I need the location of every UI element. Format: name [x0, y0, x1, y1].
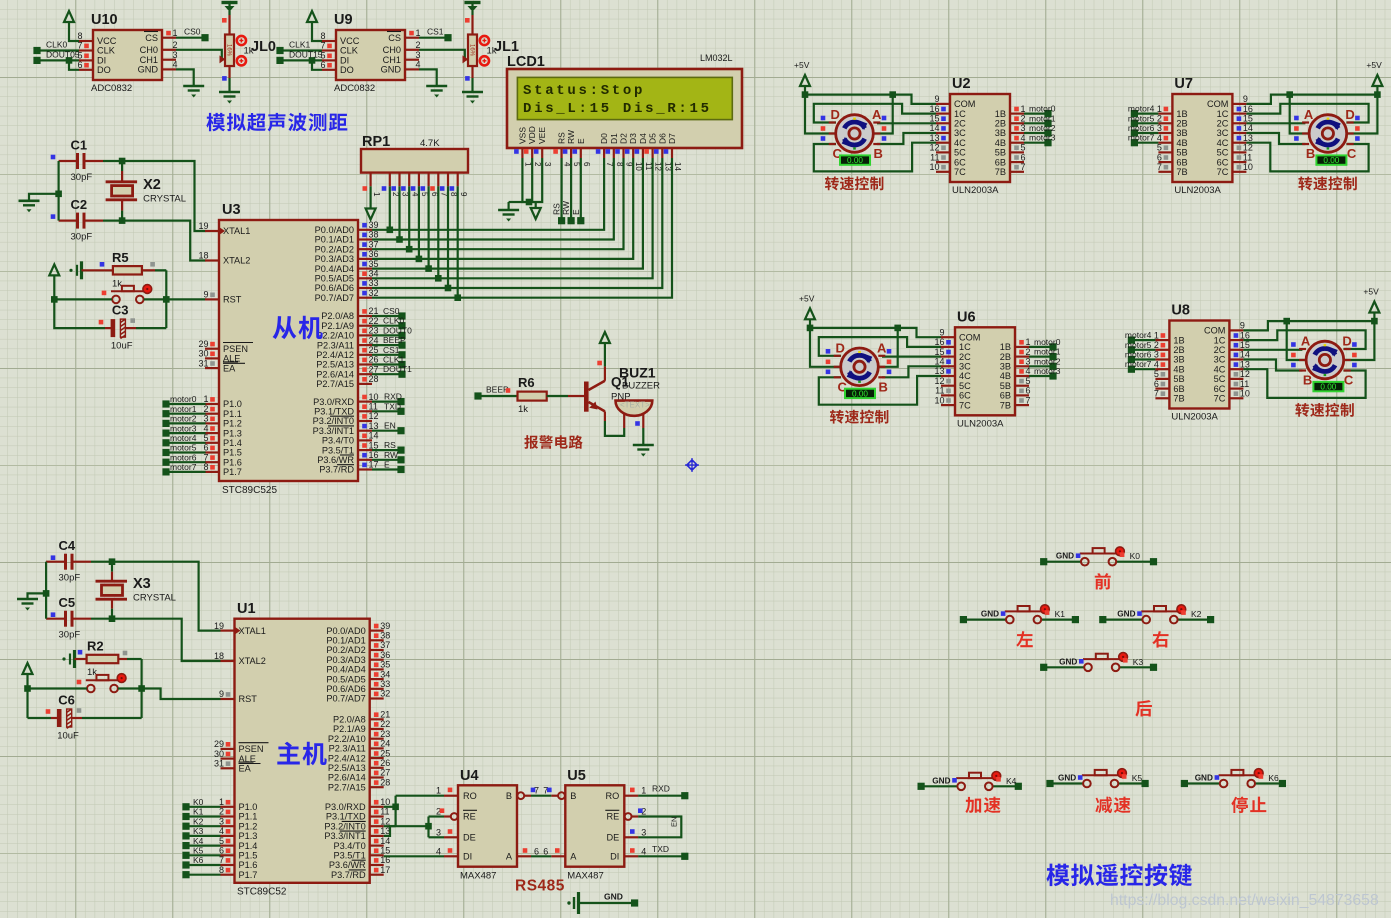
wire net K2 (U1)	[182, 823, 189, 830]
svg-text:10: 10	[1243, 162, 1253, 172]
wire motor A-2C (U8)	[1243, 349, 1302, 351]
svg-text:E: E	[576, 138, 586, 144]
capacitor C5	[64, 611, 67, 627]
stepper motor (U7)	[1309, 115, 1347, 153]
svg-text:RS: RS	[384, 440, 396, 450]
svg-text:6: 6	[582, 162, 591, 167]
label 左	[1016, 631, 1032, 647]
svg-text:C5: C5	[59, 595, 76, 610]
label 转速控制 (U8)	[1295, 403, 1353, 417]
svg-text:32: 32	[369, 288, 379, 298]
svg-text:2B: 2B	[1176, 119, 1187, 129]
svg-text:D1: D1	[609, 133, 619, 144]
MCU U1 STC89C52 (master)	[235, 619, 370, 883]
wire net CS0 (U3 P2)	[372, 315, 402, 317]
wire ground branch	[55, 191, 62, 198]
wire net CS0	[176, 37, 205, 39]
svg-text:28: 28	[380, 777, 390, 787]
svg-text:16: 16	[929, 104, 939, 114]
resistor R2	[87, 655, 119, 663]
svg-text:5B: 5B	[1176, 148, 1187, 158]
svg-text:4C: 4C	[1214, 364, 1226, 374]
svg-text:X2: X2	[143, 177, 161, 193]
svg-text:7C: 7C	[1214, 394, 1226, 404]
svg-text:5C: 5C	[1217, 148, 1229, 158]
svg-text:K4: K4	[193, 836, 204, 846]
wire net motor4 (U3)	[162, 439, 169, 446]
svg-text:9: 9	[1240, 321, 1245, 331]
bus wire P0.5/D5	[372, 158, 653, 278]
svg-text:30: 30	[214, 749, 224, 759]
svg-text:6: 6	[203, 443, 208, 453]
svg-text:7C: 7C	[954, 167, 966, 177]
wire ground branch (U1)	[43, 590, 50, 597]
speed display (U7)	[1316, 155, 1346, 164]
svg-text:D: D	[831, 107, 840, 122]
svg-text:6: 6	[1157, 152, 1162, 162]
svg-text:36: 36	[380, 650, 390, 660]
svg-text:K6: K6	[193, 855, 204, 865]
svg-text:26: 26	[380, 758, 390, 768]
svg-text:RE: RE	[607, 812, 620, 822]
svg-text:2: 2	[1026, 347, 1031, 357]
power-down arrow RP1 pin1	[370, 186, 372, 208]
ground osc	[19, 200, 40, 203]
svg-text:15: 15	[1243, 114, 1253, 124]
wire U5 RE-DE loop	[638, 817, 681, 838]
svg-text:1: 1	[641, 786, 646, 796]
svg-text:13: 13	[380, 826, 390, 836]
wire +5V rail (U6)	[807, 325, 814, 332]
svg-text:motor6: motor6	[1128, 123, 1155, 133]
svg-text:8: 8	[77, 31, 82, 41]
svg-text:C: C	[1347, 146, 1357, 161]
wire net E (U3 P3)	[372, 468, 401, 470]
svg-text:P3.5/T1: P3.5/T1	[322, 445, 354, 455]
wire motor B-3C (U8)	[1243, 360, 1302, 371]
svg-text:7: 7	[1154, 389, 1159, 399]
svg-text:6C: 6C	[959, 391, 971, 401]
wire RST	[166, 298, 205, 300]
power VCC arrow U10	[64, 11, 74, 22]
svg-text:CLK0: CLK0	[46, 40, 68, 50]
svg-text:B: B	[506, 791, 512, 801]
wire Q1 emitter to buzzer	[605, 421, 624, 436]
svg-text:3: 3	[416, 50, 421, 60]
wire motor B-3C (U2)	[877, 133, 936, 144]
wire right rail (U1)	[141, 659, 143, 718]
svg-text:18: 18	[214, 651, 224, 661]
svg-text:RW: RW	[566, 130, 576, 144]
svg-text:3: 3	[203, 414, 208, 424]
svg-text:24: 24	[380, 739, 390, 749]
wire +5V taps (U8)	[1343, 321, 1374, 360]
svg-text:XTAL1: XTAL1	[223, 226, 250, 236]
svg-text:1C: 1C	[1217, 109, 1229, 119]
svg-text:motor5: motor5	[1128, 113, 1155, 123]
wire net motor3 (U3)	[162, 430, 169, 437]
wire motor D-1C (U6)	[819, 337, 941, 356]
svg-text:P3.6/WR: P3.6/WR	[329, 860, 366, 870]
svg-text:2: 2	[173, 40, 178, 50]
svg-text:CS1: CS1	[383, 345, 400, 355]
svg-text:U2: U2	[952, 76, 971, 92]
push button K4	[918, 783, 925, 790]
wire motor A-2C (U6)	[882, 356, 941, 358]
svg-text:12: 12	[369, 411, 379, 421]
svg-text:9: 9	[934, 94, 939, 104]
svg-text:P2.6/A14: P2.6/A14	[328, 773, 366, 783]
wire XTAL1	[122, 161, 206, 231]
wire CH0 to JL1	[419, 50, 467, 60]
svg-text:3B: 3B	[995, 128, 1006, 138]
svg-text:ULN2003A: ULN2003A	[957, 418, 1004, 429]
origin marker	[685, 458, 699, 472]
svg-text:K3: K3	[193, 826, 204, 836]
svg-text:39: 39	[380, 621, 390, 631]
svg-text:6: 6	[534, 846, 539, 856]
bus wire P0.1/D1	[372, 158, 614, 240]
svg-text:10: 10	[380, 797, 390, 807]
svg-text:4.7K: 4.7K	[420, 138, 440, 149]
wire net K0 (U1)	[182, 803, 189, 810]
svg-text:CS0: CS0	[383, 306, 400, 316]
svg-text:DI: DI	[610, 852, 619, 862]
svg-text:A: A	[1304, 107, 1314, 122]
svg-text:2C: 2C	[959, 352, 971, 362]
ground LCD	[498, 209, 519, 212]
svg-text:K0: K0	[193, 797, 204, 807]
svg-text:motor4: motor4	[170, 433, 197, 443]
wire C-left rail	[57, 161, 59, 221]
svg-text:4: 4	[1157, 133, 1162, 143]
svg-text:K4: K4	[1006, 776, 1017, 786]
power arrow reset	[49, 264, 59, 275]
svg-text:8: 8	[320, 31, 325, 41]
svg-text:0.00: 0.00	[847, 156, 863, 165]
push button K5	[1046, 780, 1053, 787]
wire +5V rail (U2)	[802, 91, 809, 98]
wire net motor7 (U3)	[162, 468, 169, 475]
svg-text:12: 12	[929, 143, 939, 153]
label 从机	[273, 316, 323, 339]
wire motor B-3C (U7)	[1246, 133, 1305, 144]
svg-text:12: 12	[934, 376, 944, 386]
reset button (U1)	[87, 685, 95, 693]
svg-text:motor0: motor0	[1029, 104, 1056, 114]
svg-text:VCC: VCC	[97, 36, 117, 46]
svg-text:6: 6	[1021, 152, 1026, 162]
wire net motor0 (U6)	[1029, 346, 1053, 348]
svg-text:K5: K5	[1132, 773, 1143, 783]
svg-text:VCC: VCC	[340, 36, 360, 46]
wire XTAL2 (U1)	[112, 619, 221, 661]
svg-text:A: A	[570, 852, 577, 862]
wire net motor7 (U7)	[1134, 142, 1158, 144]
svg-text:P3.2/INT0: P3.2/INT0	[324, 821, 365, 831]
svg-text:EA: EA	[223, 363, 236, 373]
svg-text:CLK1: CLK1	[289, 40, 311, 50]
ground JL0	[219, 91, 240, 94]
svg-text:3: 3	[641, 827, 646, 837]
svg-text:0.00: 0.00	[1320, 383, 1336, 392]
svg-text:27: 27	[369, 364, 379, 374]
svg-text:14: 14	[673, 162, 682, 171]
svg-text:GND: GND	[604, 892, 623, 902]
svg-text:P3.3/INT1: P3.3/INT1	[324, 831, 365, 841]
wire +5V taps (U7)	[1346, 95, 1377, 134]
wire P1.7 stub (U1)	[182, 871, 189, 878]
svg-text:4C: 4C	[1217, 138, 1229, 148]
svg-text:E: E	[384, 460, 390, 470]
svg-text:5: 5	[1154, 369, 1159, 379]
label 转速控制 (U7)	[1298, 176, 1356, 190]
wire net motor2 (U6)	[1029, 365, 1053, 367]
svg-text:3B: 3B	[1176, 128, 1187, 138]
wire net motor2 (U2)	[1024, 132, 1048, 134]
svg-text:<TEXT>: <TEXT>	[620, 401, 650, 410]
svg-text:13: 13	[1240, 359, 1250, 369]
wire VSS/VDD/VEE	[522, 158, 542, 202]
svg-text:33: 33	[369, 278, 379, 288]
svg-text:3C: 3C	[954, 128, 966, 138]
svg-text:4: 4	[641, 846, 646, 856]
stepper motor (U2)	[836, 115, 874, 153]
crystal X3	[111, 562, 113, 572]
svg-text:4: 4	[1154, 359, 1159, 369]
wire motor C-4C (U6)	[819, 376, 941, 405]
wire net TXD	[638, 855, 685, 857]
label 转速控制 (U6)	[830, 410, 888, 424]
wire net BEEP	[474, 392, 481, 399]
label 后	[1135, 700, 1152, 716]
svg-text:RW: RW	[384, 450, 398, 460]
svg-text:COM: COM	[954, 99, 975, 109]
svg-text:P0.4/AD4: P0.4/AD4	[315, 264, 354, 274]
svg-text:GND: GND	[1195, 774, 1213, 783]
svg-text:motor6: motor6	[1125, 350, 1152, 360]
svg-text:P3.1/TXD: P3.1/TXD	[326, 812, 366, 822]
svg-text:DE: DE	[463, 833, 476, 843]
svg-text:14: 14	[1240, 350, 1250, 360]
wire net motor0 (U3)	[162, 400, 169, 407]
svg-text:22: 22	[369, 316, 379, 326]
label 右	[1152, 631, 1168, 647]
ULN2003A U6	[955, 327, 1015, 415]
svg-text:4B: 4B	[995, 138, 1006, 148]
svg-text:7: 7	[203, 452, 208, 462]
svg-text:K0: K0	[1130, 551, 1141, 561]
wire net motor3 (U2)	[1024, 142, 1048, 144]
label 转速控制 (U2)	[825, 176, 883, 190]
svg-text:1B: 1B	[1173, 335, 1184, 345]
svg-text:https://blog.csdn.net/weixin_5: https://blog.csdn.net/weixin_54873658	[1110, 892, 1379, 909]
svg-text:RP1: RP1	[362, 134, 390, 150]
svg-text:P0.2/AD2: P0.2/AD2	[315, 244, 354, 254]
svg-text:16: 16	[1243, 104, 1253, 114]
svg-text:1: 1	[1154, 330, 1159, 340]
MAX487 U4	[458, 785, 517, 866]
svg-text:15: 15	[369, 440, 379, 450]
svg-text:15: 15	[934, 347, 944, 357]
wire motor A-2C (U7)	[1246, 122, 1305, 124]
wire net CS1	[419, 37, 448, 39]
svg-text:BEEP: BEEP	[383, 335, 406, 345]
svg-text:P0.6/AD6: P0.6/AD6	[326, 684, 365, 694]
svg-text:LM032L: LM032L	[700, 53, 733, 63]
svg-text:D7: D7	[667, 133, 677, 144]
svg-text:motor3: motor3	[1029, 133, 1056, 143]
svg-text:P1.2: P1.2	[239, 821, 258, 831]
ULN2003A U7	[1172, 94, 1232, 182]
wire net E (LCD)	[580, 158, 582, 221]
wire buzzer to ground	[635, 421, 640, 426]
svg-text:4: 4	[203, 423, 208, 433]
svg-text:motor3: motor3	[170, 423, 197, 433]
svg-text:P3.7/RD: P3.7/RD	[319, 465, 354, 475]
svg-text:P2.1/A9: P2.1/A9	[333, 724, 366, 734]
svg-text:P3.7/RD: P3.7/RD	[331, 870, 366, 880]
svg-text:9: 9	[219, 689, 224, 699]
svg-text:2: 2	[219, 807, 224, 817]
svg-text:3: 3	[1021, 123, 1026, 133]
svg-text:P1.2: P1.2	[223, 419, 242, 429]
svg-text:MAX487: MAX487	[460, 871, 496, 882]
svg-text:36: 36	[369, 249, 379, 259]
svg-text:Status:Stop: Status:Stop	[523, 83, 645, 99]
svg-text:3B: 3B	[1000, 362, 1011, 372]
reset button	[112, 296, 120, 304]
transistor Q1 PNP	[584, 382, 589, 412]
svg-text:P2.1/A9: P2.1/A9	[321, 321, 354, 331]
svg-text:2: 2	[533, 162, 542, 167]
speed display (U6)	[845, 389, 875, 398]
wire net motor5 (U3)	[162, 449, 169, 456]
svg-text:P1.4: P1.4	[223, 438, 242, 448]
svg-text:RS: RS	[557, 132, 567, 144]
ULN2003A U8	[1169, 321, 1229, 409]
svg-text:21: 21	[369, 306, 379, 316]
svg-text:U6: U6	[957, 309, 976, 325]
svg-text:DOUT05: DOUT05	[46, 50, 80, 60]
svg-text:32: 32	[380, 689, 390, 699]
svg-text:7: 7	[1021, 162, 1026, 172]
wire net motor2 (U3)	[162, 420, 169, 427]
wire net motor4 (U8)	[1131, 339, 1155, 341]
GND cell	[567, 901, 570, 904]
wire U1-P3.2 to RE/DE	[384, 825, 429, 827]
svg-text:17: 17	[380, 865, 390, 875]
push button K3	[1040, 664, 1047, 671]
svg-text:BUZ1: BUZ1	[619, 365, 656, 381]
svg-text:P3.3/INT1: P3.3/INT1	[313, 426, 354, 436]
svg-text:2: 2	[416, 40, 421, 50]
svg-text:U9: U9	[334, 12, 353, 28]
svg-text:DO: DO	[97, 65, 111, 75]
wire net DOUT15	[276, 57, 283, 64]
push button K0	[1040, 558, 1047, 565]
svg-text:4C: 4C	[959, 371, 971, 381]
svg-text:5: 5	[1026, 376, 1031, 386]
svg-text:D4: D4	[638, 133, 648, 144]
svg-text:U8: U8	[1171, 303, 1190, 319]
wire XTAL1 (U1)	[112, 562, 221, 631]
push button K6	[1181, 780, 1188, 787]
svg-text:1: 1	[219, 797, 224, 807]
svg-text:6B: 6B	[1000, 391, 1011, 401]
svg-text:24: 24	[369, 335, 379, 345]
svg-text:P2.0/A8: P2.0/A8	[333, 715, 366, 725]
svg-text:P2.7/A15: P2.7/A15	[328, 782, 366, 792]
svg-text:3C: 3C	[1214, 355, 1226, 365]
svg-text:motor7: motor7	[1125, 359, 1152, 369]
svg-text:5C: 5C	[959, 381, 971, 391]
svg-text:35: 35	[380, 660, 390, 670]
svg-text:9: 9	[203, 290, 208, 300]
svg-text:B: B	[874, 146, 883, 161]
wire net CLK0	[33, 47, 40, 54]
wire XTAL2	[122, 221, 206, 261]
svg-text:ULN2003A: ULN2003A	[952, 185, 999, 196]
svg-text:6B: 6B	[995, 157, 1006, 167]
svg-text:K6: K6	[1268, 773, 1279, 783]
svg-text:11: 11	[930, 152, 939, 162]
power arrow reset (U1)	[23, 663, 33, 674]
svg-text:7C: 7C	[959, 400, 971, 410]
svg-text:+5V: +5V	[1363, 287, 1379, 297]
svg-text:P1.7: P1.7	[239, 870, 258, 880]
svg-text:motor2: motor2	[170, 414, 197, 424]
svg-text:P2.0/A8: P2.0/A8	[321, 311, 354, 321]
svg-text:0.00: 0.00	[1323, 156, 1339, 165]
power VCC arrow U9	[307, 11, 317, 22]
svg-text:P0.5/AD5: P0.5/AD5	[326, 674, 365, 684]
speed display (U8)	[1313, 382, 1343, 391]
svg-text:JL1: JL1	[494, 39, 519, 55]
wire net motor1 (U3)	[162, 410, 169, 417]
svg-text:11: 11	[380, 807, 389, 817]
svg-text:ULN2003A: ULN2003A	[1171, 412, 1218, 423]
svg-text:PSEN: PSEN	[239, 744, 264, 754]
svg-text:P2.7/A15: P2.7/A15	[316, 379, 354, 389]
label 停止	[1231, 796, 1266, 813]
svg-text:P2.5/A13: P2.5/A13	[316, 360, 354, 370]
svg-text:10: 10	[934, 395, 944, 405]
svg-text:4: 4	[436, 846, 441, 856]
label 报警电路	[524, 435, 582, 449]
svg-text:3C: 3C	[1217, 128, 1229, 138]
svg-text:VSS: VSS	[517, 127, 527, 144]
svg-text:22: 22	[380, 719, 390, 729]
wire net TXD (U3 P3)	[372, 410, 401, 412]
ULN2003A U2	[950, 94, 1010, 182]
svg-text:3B: 3B	[1173, 355, 1184, 365]
svg-text:GND: GND	[981, 610, 999, 619]
svg-text:COM: COM	[959, 332, 980, 342]
wire U1-P3.5 to U4 DI	[384, 855, 444, 857]
svg-text:+5V: +5V	[799, 293, 815, 303]
svg-text:VDD: VDD	[527, 126, 537, 144]
svg-text:RE: RE	[463, 812, 476, 822]
wire net DOUT0 (U3 P2)	[372, 334, 402, 336]
svg-text:K2: K2	[1191, 609, 1202, 619]
svg-text:P2.6/A14: P2.6/A14	[316, 369, 354, 379]
svg-text:39: 39	[369, 220, 379, 230]
svg-text:5: 5	[219, 836, 224, 846]
svg-text:5C: 5C	[954, 148, 966, 158]
svg-text:RO: RO	[606, 791, 620, 801]
svg-text:5C: 5C	[1214, 374, 1226, 384]
